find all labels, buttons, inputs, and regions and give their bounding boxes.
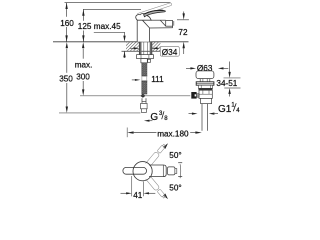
- waste main body: [199, 90, 212, 98]
- dimension max.300: [82, 49, 84, 90]
- plan view lever stub: [123, 167, 147, 174]
- svg-text:max.: max.: [75, 60, 93, 69]
- pop-up rod clevis: [191, 92, 196, 99]
- svg-text:72: 72: [178, 28, 188, 37]
- waste flange: [196, 82, 214, 85]
- label G3/8 with leader: [144, 120, 150, 122]
- svg-text:50°: 50°: [169, 151, 181, 160]
- svg-text:8: 8: [164, 116, 168, 122]
- svg-text:max.180: max.180: [157, 130, 189, 139]
- svg-text:G: G: [150, 112, 158, 123]
- waste tailpiece: [201, 104, 203, 131]
- shank through deck: [140, 42, 142, 55]
- svg-text:G1: G1: [218, 104, 232, 115]
- svg-text:4: 4: [236, 108, 240, 114]
- hose lower plain section: [141, 98, 143, 101]
- svg-text:350: 350: [59, 75, 73, 84]
- stud end: [148, 59, 151, 62]
- extension line max.300 level: [80, 95, 190, 97]
- plan view spout tube: [146, 165, 166, 177]
- phantom spout lower (-50): [146, 176, 167, 200]
- waste upper body band with tabs: [198, 85, 212, 88]
- svg-text:41: 41: [133, 191, 143, 200]
- label box Ø34: [160, 47, 179, 57]
- svg-text:300: 300: [76, 72, 90, 81]
- deck cross-section top line: [53, 41, 189, 43]
- svg-text:max.45: max.45: [94, 22, 121, 31]
- extension line 350 level: [59, 112, 140, 114]
- label G1 1/4 with leader: [209, 113, 215, 115]
- phantom raised lever: [137, 3, 171, 16]
- arc end dashes: [178, 162, 182, 164]
- hose break: [141, 75, 147, 77]
- dimension 111 leader: [132, 79, 136, 81]
- hose end nut G3/8: [141, 102, 148, 113]
- phantom spout upper (+50): [146, 143, 167, 167]
- svg-text:160: 160: [60, 19, 74, 28]
- faucet body front view: [137, 20, 166, 42]
- dimension Ø63: [186, 67, 191, 69]
- plan view swing arc: [179, 164, 182, 178]
- waste dark collar: [199, 88, 213, 90]
- aerator: [166, 21, 173, 27]
- pop-up waste plug cap: [196, 71, 214, 79]
- plug neck: [199, 79, 201, 82]
- mounting nut: [137, 55, 154, 59]
- lever knob and cap: [136, 13, 151, 20]
- supply hose lower braided section: [142, 81, 147, 94]
- svg-text:125: 125: [78, 22, 92, 31]
- dimension 350: [66, 49, 68, 107]
- dimension 41: [131, 176, 133, 196]
- dimension 125: [82, 9, 84, 41]
- dimension 160: [66, 3, 68, 42]
- deck cross-section bottom line: [122, 50, 161, 52]
- spout: [150, 20, 173, 28]
- plan view body circle: [133, 162, 152, 181]
- hose nipple: [141, 59, 147, 63]
- lower 50 deg label: [169, 182, 183, 192]
- dimension 72: [177, 19, 189, 21]
- dimension max.180: [126, 128, 128, 138]
- dimension 34-51: [229, 62, 231, 73]
- lever blade: [144, 10, 166, 17]
- svg-text:34-51: 34-51: [216, 79, 237, 88]
- plan view aerator: [168, 167, 175, 175]
- svg-text:Ø34: Ø34: [162, 48, 178, 57]
- junction diamond: [140, 94, 145, 98]
- svg-text:50°: 50°: [169, 184, 181, 193]
- deck hatching: [116, 41, 169, 53]
- extension line top 160 level: [65, 2, 171, 4]
- dimension Ø34 arrows: [130, 47, 138, 49]
- extension line 125 level: [83, 8, 141, 10]
- supply hose upper braided section: [142, 63, 147, 76]
- upper 50 deg label: [169, 150, 183, 160]
- arc arrowheads: [163, 143, 168, 149]
- waste lower section: [201, 98, 212, 103]
- svg-text:111: 111: [151, 75, 164, 84]
